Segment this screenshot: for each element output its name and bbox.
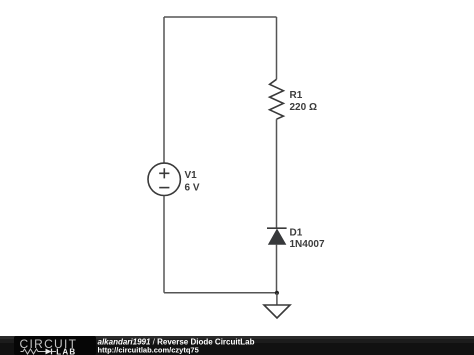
wire top horizontal [164, 16, 277, 18]
svg-text:R1: R1 [290, 90, 303, 101]
svg-text:V1: V1 [185, 170, 198, 181]
wire bottom horizontal [164, 292, 277, 294]
wire left lower [163, 196, 165, 293]
V1 plus sign [159, 168, 169, 178]
ground symbol [264, 305, 290, 318]
wire right upper [276, 17, 278, 79]
ground stem wire [276, 293, 278, 305]
svg-text:D1: D1 [290, 227, 303, 238]
V1 minus sign [159, 187, 169, 189]
logo diode glyph [46, 349, 52, 355]
wire right middle [276, 119, 278, 228]
junction node [275, 291, 279, 295]
footer bar [0, 336, 474, 355]
svg-text:LAB: LAB [56, 347, 76, 355]
wire left upper [163, 17, 165, 163]
svg-text:6 V: 6 V [185, 183, 200, 194]
svg-text:1N4007: 1N4007 [290, 239, 325, 250]
diode D1 cathode bar [267, 227, 287, 229]
diode D1 triangle [269, 230, 286, 245]
wire right lower [276, 244, 278, 292]
logo resistor zigzag [21, 349, 46, 354]
svg-text:http://circuitlab.com/czytq75: http://circuitlab.com/czytq75 [98, 346, 199, 355]
svg-text:220 Ω: 220 Ω [290, 102, 317, 113]
voltage source V1 circle [148, 163, 180, 195]
resistor R1 [270, 79, 284, 119]
footer logo plate [14, 336, 96, 355]
